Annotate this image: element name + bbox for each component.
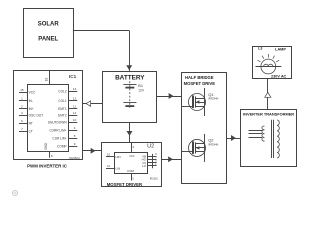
svg-text:COM: COM (127, 169, 135, 173)
svg-text:IRFZ44N: IRFZ44N (208, 144, 218, 147)
svg-text:12: 12 (107, 164, 111, 168)
svg-text:SOLAR: SOLAR (38, 22, 60, 28)
label B1 12V (138, 84, 145, 93)
svg-text:MOSFET DRIVER: MOSFET DRIVER (107, 182, 143, 187)
svg-text:LIN: LIN (116, 166, 121, 170)
wire battery to IC1 (83, 101, 103, 106)
svg-text:Q2: Q2 (208, 138, 214, 143)
watermark circle (12, 190, 17, 195)
svg-text:CURR LIM+: CURR LIM+ (49, 129, 66, 133)
svg-text:10: 10 (107, 152, 111, 156)
U2 pin 12 LIN (106, 164, 120, 171)
IC1 pin 4 CURR LIM+ (49, 126, 77, 133)
svg-text:B1: B1 (138, 84, 143, 88)
U2 pin 2 COM bottom stub (127, 169, 135, 181)
svg-text:COMP: COMP (57, 145, 67, 149)
svg-text:INVERTER TRANSFORMER: INVERTER TRANSFORMER (243, 111, 294, 116)
U2 pin 10 HIN (106, 152, 121, 159)
transformer T1 primary winding (249, 126, 265, 141)
transformer core (272, 120, 274, 158)
svg-text:10: 10 (73, 118, 77, 122)
svg-text:IN+: IN+ (29, 107, 34, 111)
svg-text:MOSFET DRIVE: MOSFET DRIVE (184, 81, 216, 86)
svg-text:IRFZ44N: IRFZ44N (208, 98, 218, 101)
svg-text:VCC: VCC (129, 155, 134, 158)
svg-text:230V AC: 230V AC (271, 75, 287, 79)
battery B1 symbol (123, 81, 136, 108)
U2 pin 3 VCC top stub (129, 142, 134, 158)
transistor Q1 IRFZ44N mosfet (181, 88, 206, 116)
svg-text:12: 12 (73, 97, 77, 101)
wire battery to mosfet driver U2 (127, 122, 132, 142)
svg-text:VCC: VCC (29, 90, 36, 94)
svg-text:HIN: HIN (116, 155, 121, 159)
wire transformer to lamp (265, 78, 271, 109)
IC1 pin 12 COL1 (58, 97, 77, 104)
IC1 pin 14 EMT2 (58, 111, 77, 118)
IC1 inner IC body (28, 85, 69, 152)
IC1 pin 2 IN+ (19, 105, 34, 112)
svg-text:COL2: COL2 (58, 90, 67, 94)
svg-text:Q1: Q1 (208, 92, 214, 97)
IC1 pin 10 SHUTDOWN (48, 118, 77, 125)
lamp box (253, 47, 292, 79)
U2 right pins bus line (152, 154, 154, 168)
IC1 pin 6 RT (19, 119, 33, 126)
svg-text:EMT1: EMT1 (58, 107, 67, 111)
lamp L3 symbol (256, 54, 282, 74)
svg-text:L3: L3 (258, 47, 262, 51)
svg-text:CUR LIM-: CUR LIM- (52, 137, 66, 141)
svg-text:OSC OUT: OSC OUT (29, 114, 44, 118)
svg-text:LAMP: LAMP (275, 47, 286, 51)
solar panel (24, 9, 74, 58)
U2 pin 6 VB (142, 153, 157, 158)
U2 inner IC body (115, 153, 148, 174)
label Q2 IRFZ44N (208, 138, 218, 147)
IC1 pin 11 EMT1 (58, 104, 77, 111)
U2 pin 1 LO (142, 163, 157, 168)
svg-text:13: 13 (73, 87, 77, 91)
inverter transformer box (241, 110, 297, 167)
svg-text:BATTERY: BATTERY (115, 74, 145, 81)
svg-text:HALF BRIDGE: HALF BRIDGE (185, 75, 214, 80)
U2 pin 7 HO (142, 157, 158, 162)
svg-text:16: 16 (44, 78, 48, 82)
svg-text:EMT2: EMT2 (58, 113, 67, 117)
mosfet driver U2 outer box (102, 143, 162, 187)
wire U2 to half-bridge (162, 157, 181, 162)
svg-text:12V: 12V (138, 89, 145, 93)
IC1 pin 1 IN- (19, 96, 33, 103)
wire half-bridge to inverter transformer (226, 136, 241, 141)
label Q1 IRFZ44N (208, 92, 218, 101)
svg-text:PANEL: PANEL (38, 37, 58, 43)
svg-text:U2: U2 (147, 144, 154, 150)
svg-text:IN-: IN- (29, 99, 33, 103)
wire battery to half-bridge (157, 94, 181, 99)
svg-text:14: 14 (73, 111, 77, 115)
battery box (103, 72, 157, 123)
IC1 pin 5 CUR LIM- (52, 134, 77, 141)
svg-text:RT: RT (29, 122, 33, 126)
svg-text:SG3524: SG3524 (69, 156, 80, 160)
IC1 pin 16 top stub (44, 71, 49, 84)
IC1 pin 15 VCC (19, 88, 36, 95)
U2 pin 5 VS (142, 160, 157, 165)
IC1 pin 8 GND bottom stub (44, 142, 53, 158)
svg-text:GND: GND (44, 142, 48, 150)
IC1 pin 9 COMP (57, 142, 77, 149)
svg-text:PWM INVERTER IC: PWM INVERTER IC (27, 163, 68, 168)
half bridge mosfet drive box (182, 73, 227, 184)
svg-text:IC1: IC1 (69, 74, 77, 79)
IC1 pin 13 COL2 (58, 87, 77, 94)
svg-text:COL1: COL1 (58, 99, 67, 103)
svg-text:15: 15 (20, 88, 24, 92)
transistor Q2 IRFZ44N mosfet (181, 134, 206, 162)
svg-text:11: 11 (73, 104, 76, 108)
IC1 pin 7 CT (19, 127, 33, 134)
svg-text:CT: CT (29, 130, 33, 134)
svg-text:SHUTDOWN: SHUTDOWN (48, 121, 67, 125)
transformer secondary winding (277, 120, 279, 158)
IC1 pin 3 OSC OUT (19, 111, 43, 118)
wire solar panel to battery (74, 31, 132, 72)
wire IC1 to mosfet driver U2 (82, 148, 101, 153)
PWM inverter IC IC1 outer box (14, 71, 83, 160)
